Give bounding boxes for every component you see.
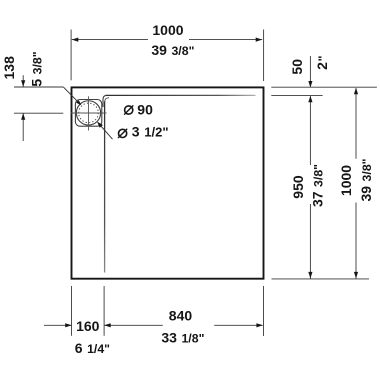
svg-text:5 3/8": 5 3/8" bbox=[29, 51, 45, 86]
svg-text:160: 160 bbox=[76, 318, 100, 334]
svg-text:33 1/8": 33 1/8" bbox=[161, 330, 204, 346]
svg-text:39 3/8": 39 3/8" bbox=[151, 42, 194, 58]
svg-text:90: 90 bbox=[137, 102, 153, 118]
svg-text:3 1/2": 3 1/2" bbox=[132, 123, 169, 139]
svg-text:1000: 1000 bbox=[152, 22, 183, 38]
svg-text:138: 138 bbox=[1, 56, 17, 80]
svg-text:840: 840 bbox=[169, 307, 193, 323]
svg-text:2": 2" bbox=[314, 55, 330, 70]
svg-text:6 1/4": 6 1/4" bbox=[75, 340, 110, 356]
svg-text:950: 950 bbox=[290, 175, 306, 199]
svg-text:39 3/8": 39 3/8" bbox=[358, 158, 374, 201]
svg-text:50: 50 bbox=[289, 59, 305, 75]
svg-text:1000: 1000 bbox=[338, 165, 354, 196]
svg-text:37 3/8": 37 3/8" bbox=[310, 164, 326, 207]
